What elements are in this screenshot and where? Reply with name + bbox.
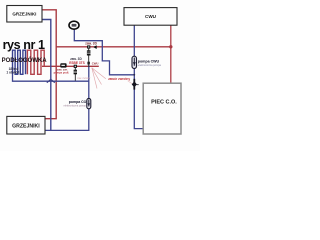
node red junction [169,45,172,48]
box GRZEJNIKI top [7,6,42,23]
box GRZEJNIKI bottom [7,116,45,134]
node junction blue [133,74,135,76]
valve zaw.3D upper on main line [87,45,97,49]
coil red podlogowka loop [27,50,44,74]
coil blue podlogowka loop [13,50,26,74]
svg-text:GRZEJNIKI: GRZEJNIKI [12,12,36,17]
pump podlogowka on lower line [60,63,66,67]
svg-text:CWU: CWU [92,61,99,65]
svg-text:zawór zwrotny: zawór zwrotny [108,77,130,81]
pump pompa CO [87,98,91,108]
wire blue return top radiators [42,20,51,131]
svg-text:ESBE 3TS: ESBE 3TS [69,61,84,65]
svg-text:GRZEJNIKI: GRZEJNIKI [12,123,40,129]
wire red lower horizontal [42,65,99,67]
leader lines [92,68,106,79]
svg-text:pompa podł.: pompa podł. [54,70,70,74]
box PIEC C.O. [143,83,181,134]
wire blue CWU return [134,25,143,128]
wire red supply from top radiators [42,10,56,119]
wire blue podlogowka return [13,75,89,82]
svg-text:PIEC C.O.: PIEC C.O. [151,99,177,105]
wire red CWU drop [170,25,172,83]
svg-text:PODŁOGÓWKA: PODŁOGÓWKA [2,56,48,64]
svg-text:pompa CO: pompa CO [69,100,87,104]
box CWU [124,8,177,26]
wire blue bottom radiators return + pompa CO riser [45,66,89,130]
svg-text:elektroniczna pompa: elektroniczna pompa [64,104,88,107]
svg-text:zaw. 3D: zaw. 3D [85,42,97,46]
svg-text:zaw. zwrotny: zaw. zwrotny [77,77,91,80]
svg-text:1 obwód: 1 obwód [6,71,19,75]
junction chevron on podlogowka return at riser [47,79,55,82]
wire red main horizontal [56,46,171,48]
svg-text:elektroniczna pompa: elektroniczna pompa [138,64,162,67]
check valve zawor zwrotny [132,79,139,90]
svg-text:rys nr 1: rys nr 1 [3,38,45,52]
valve zaw.3D ESBE on lower line [74,65,77,81]
actuator of upper valve [87,49,91,66]
pump pompa CWU [132,56,137,68]
wire blue from expansion vessel [74,29,134,75]
expansion vessel [69,21,79,29]
svg-text:CWU: CWU [145,14,157,19]
